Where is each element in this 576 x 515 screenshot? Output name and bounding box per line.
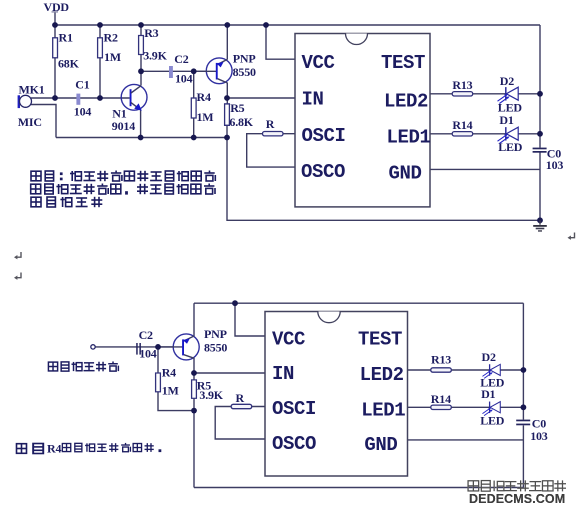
- node junction rail / Q2 emitter: [224, 22, 230, 28]
- node junction VDD rail / R1: [52, 22, 58, 28]
- node junction C2b / R4b / Q3 base: [155, 344, 161, 350]
- node junction rail / U1 VCC: [263, 22, 269, 28]
- IC U1 box: [295, 34, 431, 207]
- svg-text:OSCI: OSCI: [302, 125, 346, 147]
- LED D2 (top): [498, 87, 519, 103]
- node junction D2 / right column: [537, 91, 543, 97]
- svg-text:R13: R13: [452, 78, 472, 92]
- svg-text:IN: IN: [272, 363, 294, 385]
- note line3 能需要调整: [31, 197, 41, 207]
- wire right column 2: [522, 303, 524, 487]
- wire R4 column: [193, 71, 195, 137]
- svg-text:R3: R3: [144, 26, 158, 40]
- node junction D2b / right column2: [521, 367, 527, 373]
- label 音频信号输入: [48, 361, 118, 371]
- resistor R1: [53, 38, 58, 58]
- node junction Q2 collector / R5 / U1 IN: [224, 95, 230, 101]
- resistor R3: [139, 36, 144, 55]
- wire PNP2 collector column: [193, 358, 195, 411]
- svg-text:D1: D1: [499, 113, 513, 127]
- svg-text:VCC: VCC: [272, 329, 305, 351]
- svg-text:VCC: VCC: [302, 52, 335, 74]
- node junction Q3 collector / R5b / U2 IN: [191, 370, 197, 376]
- node junction C2 / R4 / Q2 base: [191, 68, 197, 74]
- note line1 注意：麦克风信号放大电路在不: [31, 171, 41, 181]
- node junction rail2 / U2 VCC: [232, 300, 238, 306]
- wire top VDD rail: [55, 24, 540, 26]
- svg-text:PNP: PNP: [233, 52, 256, 66]
- LED D1 (top): [498, 127, 519, 143]
- svg-text:MIC: MIC: [18, 115, 42, 129]
- svg-text:TEST: TEST: [358, 329, 402, 351]
- LED D2 (bottom): [482, 364, 500, 378]
- wire IN row: [227, 97, 295, 99]
- node junction R1 / mic / C1: [52, 95, 58, 101]
- wire GND row 2: [408, 439, 524, 441]
- wire R1 column: [54, 25, 56, 98]
- wire mic bottom to ground rail: [31, 105, 56, 138]
- svg-text:3.9K: 3.9K: [143, 49, 167, 63]
- svg-text:OSCO: OSCO: [272, 433, 316, 455]
- svg-text:68K: 68K: [58, 56, 80, 70]
- svg-text:R13: R13: [431, 353, 451, 367]
- svg-text:R: R: [236, 391, 245, 405]
- IC U1 box (bottom): [265, 312, 408, 477]
- svg-text:R5: R5: [230, 101, 244, 115]
- note 2 (调整R4...): [17, 441, 162, 455]
- svg-text:D2: D2: [482, 350, 496, 364]
- wire R3 column: [140, 25, 142, 86]
- resistor R (oscillator, bottom): [231, 404, 252, 408]
- svg-text:TEST: TEST: [381, 52, 425, 74]
- svg-text:6.8K: 6.8K: [229, 115, 253, 129]
- wire IN row 2: [194, 372, 265, 374]
- svg-text:LED1: LED1: [387, 127, 431, 149]
- resistor R (oscillator, top): [263, 132, 284, 136]
- svg-text:IN: IN: [302, 89, 324, 111]
- wire C2 row (R3 junction to PNP base): [141, 70, 216, 72]
- svg-text:103: 103: [530, 429, 548, 443]
- resistor R13 (bottom): [431, 368, 452, 372]
- capacitor C2 (bottom): [136, 328, 157, 361]
- svg-text:104: 104: [139, 347, 157, 361]
- transistor PNP 8550 (top): [194, 52, 256, 84]
- carriage return marks: [14, 252, 21, 259]
- node junction D1b / right column2: [521, 404, 527, 410]
- resistor R14 (top): [452, 132, 473, 136]
- svg-text:MK1: MK1: [19, 83, 45, 97]
- svg-text:1M: 1M: [104, 50, 121, 64]
- resistor R4 (top): [191, 98, 196, 118]
- ground: [533, 220, 547, 231]
- svg-text:C2: C2: [139, 328, 153, 342]
- wire top rail 2: [194, 302, 523, 304]
- svg-text:R14: R14: [431, 392, 451, 406]
- watermark: [468, 480, 566, 506]
- wire LED2 row 2: [408, 369, 524, 371]
- wire PNP emitter column: [226, 25, 228, 59]
- wire VCC pin: [266, 25, 295, 59]
- resistor R5 (bottom): [192, 380, 197, 398]
- svg-text:3.9K: 3.9K: [199, 388, 223, 402]
- node VDD stub wire: [54, 13, 56, 26]
- wire OSCI loop 2: [215, 407, 265, 440]
- wire mic top row (to N1 base): [31, 97, 130, 99]
- note text (3 lines pseudo CJK): [31, 171, 216, 208]
- svg-text:103: 103: [546, 158, 564, 172]
- capacitor C0 (top): [533, 146, 564, 172]
- svg-text:D1: D1: [481, 387, 495, 401]
- wire left column upper (rail to PNP): [193, 303, 195, 336]
- svg-text:104: 104: [175, 72, 193, 86]
- label 音频信号输入: [48, 362, 57, 371]
- capacitor C2: [169, 66, 173, 78]
- node junction rail / R3: [138, 22, 144, 28]
- resistor R4 (bottom): [156, 373, 161, 392]
- wire right vertical upper (rail to C0): [539, 25, 541, 148]
- svg-text:OSCI: OSCI: [272, 398, 316, 420]
- LED D1 (bottom): [482, 402, 500, 416]
- svg-text:LED: LED: [480, 413, 505, 427]
- svg-text:GND: GND: [364, 434, 397, 456]
- wire R2 column: [99, 25, 101, 98]
- wire PNP collector column: [226, 83, 228, 138]
- svg-text:LED: LED: [498, 140, 523, 154]
- svg-text:PNP: PNP: [204, 327, 227, 341]
- svg-text:R4: R4: [197, 90, 211, 104]
- node junction R3 / N1 collector / C2: [138, 68, 144, 74]
- svg-text:D2: D2: [500, 74, 514, 88]
- svg-text:DEDECMS.COM: DEDECMS.COM: [469, 492, 565, 506]
- svg-text:104: 104: [74, 105, 92, 119]
- svg-text:C2: C2: [174, 52, 188, 66]
- node junction N1 emitter / ground rail: [138, 135, 144, 141]
- watermark 织梦内容管理系统 halo: [468, 481, 479, 491]
- wire bottom rail 2: [194, 487, 523, 489]
- capacitor C1: [76, 94, 80, 105]
- svg-text:LED2: LED2: [384, 90, 428, 112]
- note 调整R4可改变触发灵敏度.: [17, 444, 27, 454]
- node junction D1 / right column: [537, 131, 543, 137]
- svg-text:C1: C1: [75, 77, 89, 91]
- transistor N1 9014: [112, 84, 147, 132]
- svg-text:9014: 9014: [112, 119, 135, 133]
- svg-text:1M: 1M: [162, 384, 179, 398]
- resistor R5 (top): [225, 104, 230, 125]
- resistor R14 (bottom): [431, 405, 452, 409]
- svg-text:8550: 8550: [233, 65, 256, 79]
- wire left column lower: [193, 411, 195, 488]
- svg-text:GND: GND: [389, 163, 422, 185]
- node junction rail / R2: [97, 22, 103, 28]
- node junction ground node: [537, 217, 543, 223]
- svg-text:R2: R2: [104, 31, 118, 45]
- wire VCC pin 2: [235, 303, 265, 336]
- input terminal: [91, 345, 95, 349]
- wire LED1 row 2: [408, 406, 524, 408]
- resistor R13 (top): [452, 92, 473, 96]
- svg-text:8550: 8550: [204, 340, 227, 354]
- wire bottom rail: [56, 137, 227, 139]
- note line2 同的工作电压时，电路电阻值可: [31, 184, 41, 194]
- node junction R4b / R5b: [191, 408, 197, 414]
- wire right vertical lower (C0 to ground): [539, 152, 541, 220]
- svg-text:R14: R14: [452, 118, 472, 132]
- microphone MK1: [18, 83, 45, 129]
- svg-text:R1: R1: [59, 31, 73, 45]
- wire N1 emitter column: [140, 110, 142, 138]
- node junction R4 / ground rail: [191, 135, 197, 141]
- svg-text:OSCO: OSCO: [301, 161, 345, 183]
- wire LED2 row: [430, 93, 540, 95]
- wire OSCI feedback loop: [247, 134, 295, 167]
- svg-text:1M: 1M: [197, 110, 214, 124]
- resistor R2: [98, 38, 103, 58]
- svg-text:R4: R4: [162, 366, 176, 380]
- svg-text:LED1: LED1: [361, 399, 405, 421]
- svg-text:R: R: [266, 117, 275, 131]
- wire R4 column 2: [158, 347, 194, 411]
- wire GND pin row: [430, 168, 540, 170]
- transistor PNP 8550 (bottom): [158, 327, 227, 360]
- node junction R5 / ground rail: [224, 135, 230, 141]
- wire input row: [95, 346, 182, 348]
- capacitor C0 (bottom): [516, 417, 548, 443]
- node junction R2 / N1 base: [97, 95, 103, 101]
- wire ground run: [227, 138, 540, 221]
- wire LED1 row: [430, 133, 540, 135]
- watermark 织梦内容管理系统: [468, 481, 479, 491]
- svg-text:LED2: LED2: [360, 364, 404, 386]
- svg-text:R4: R4: [47, 441, 61, 455]
